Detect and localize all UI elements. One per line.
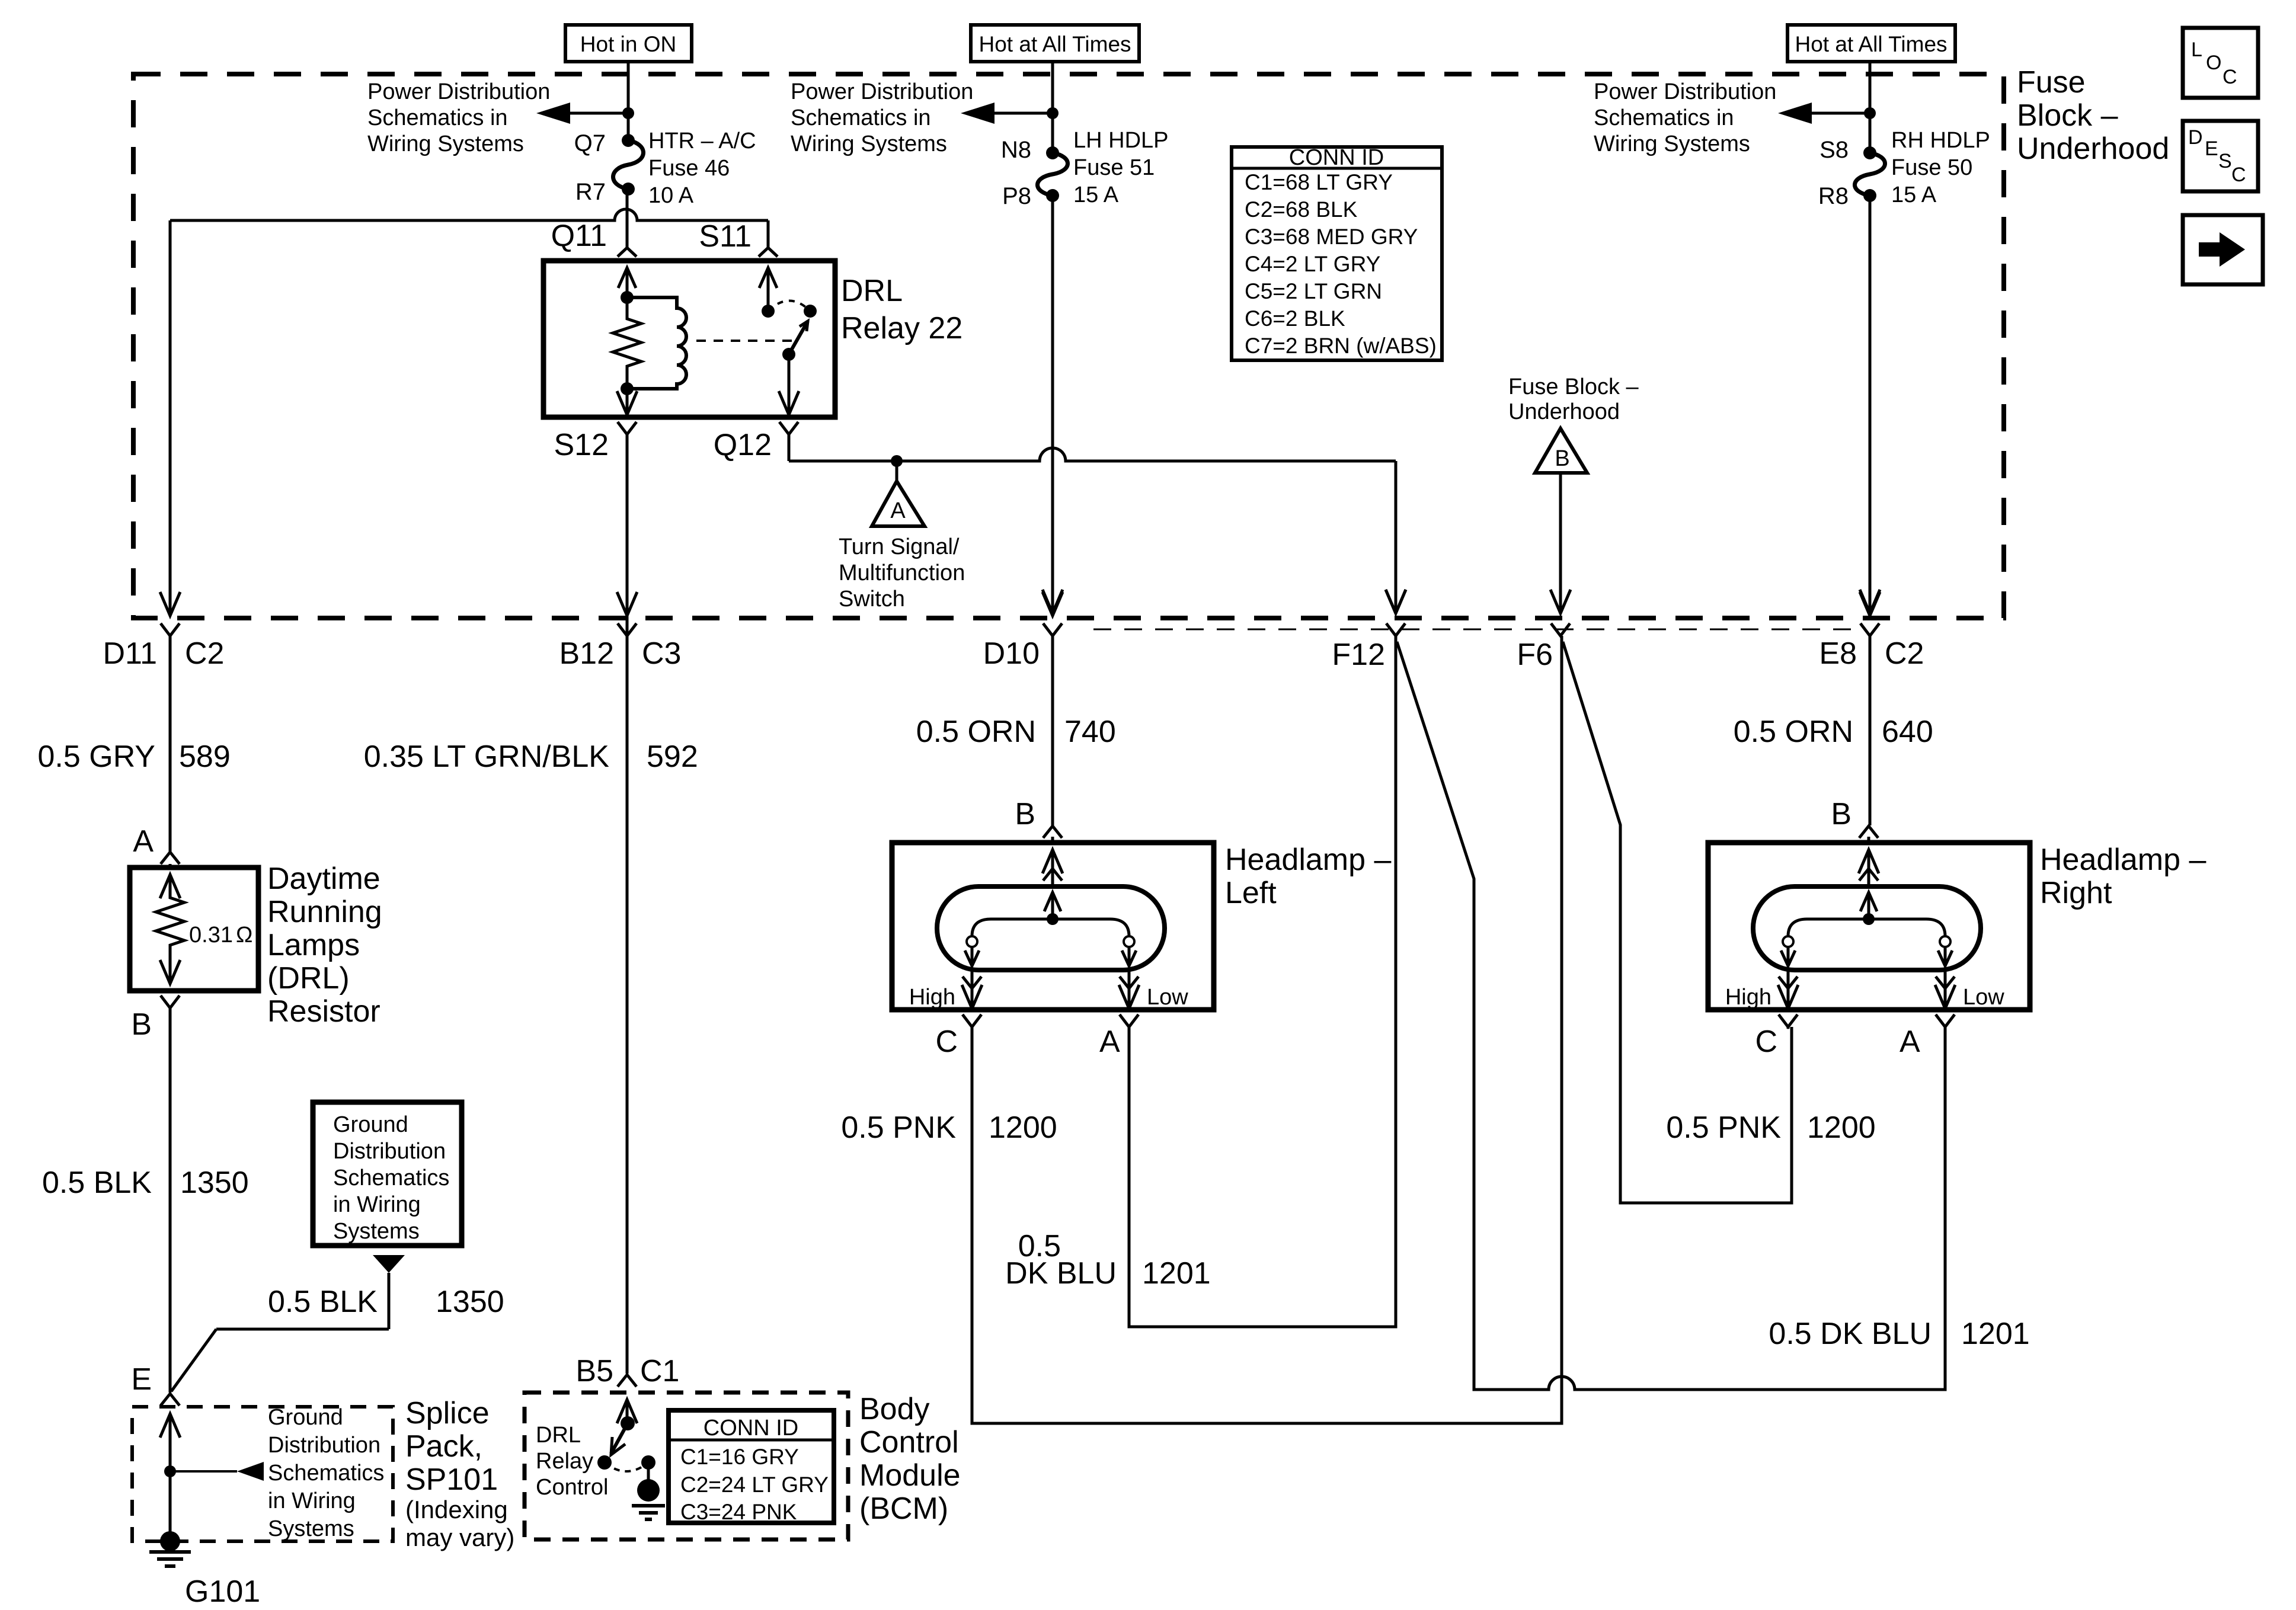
svg-text:0.35 LT GRN/BLK: 0.35 LT GRN/BLK (364, 740, 610, 774)
svg-text:C5=2 LT GRN: C5=2 LT GRN (1245, 279, 1382, 303)
svg-text:Schematics in: Schematics in (791, 105, 931, 130)
svg-text:LH HDLP: LH HDLP (1073, 128, 1169, 153)
svg-text:DRL: DRL (841, 274, 903, 308)
svg-text:Ground: Ground (333, 1112, 408, 1137)
svg-text:C3: C3 (642, 636, 681, 671)
svg-text:C1: C1 (640, 1354, 679, 1388)
svg-text:Q11: Q11 (551, 219, 607, 253)
svg-text:1200: 1200 (1807, 1110, 1876, 1145)
svg-text:Ground: Ground (268, 1405, 343, 1430)
svg-text:may vary): may vary) (405, 1523, 514, 1551)
svg-text:0.5 BLK: 0.5 BLK (42, 1166, 152, 1200)
svg-text:F12: F12 (1332, 638, 1385, 672)
svg-text:Schematics in: Schematics in (367, 105, 508, 130)
svg-text:Power Distribution: Power Distribution (1594, 79, 1776, 104)
svg-text:Module: Module (859, 1458, 961, 1493)
svg-text:(Indexing: (Indexing (405, 1496, 508, 1523)
svg-text:Headlamp –: Headlamp – (2040, 843, 2206, 877)
svg-text:C: C (2223, 66, 2237, 88)
svg-text:E: E (2205, 137, 2218, 160)
svg-text:C2: C2 (185, 636, 224, 671)
svg-text:0.5 BLK: 0.5 BLK (268, 1285, 378, 1319)
svg-text:Daytime: Daytime (267, 862, 380, 896)
svg-text:Low: Low (1963, 985, 2004, 1010)
svg-text:R7: R7 (575, 179, 606, 205)
svg-text:High: High (1725, 985, 1771, 1010)
svg-text:Systems: Systems (268, 1516, 354, 1541)
svg-text:Lamps: Lamps (267, 928, 360, 962)
svg-text:Distribution: Distribution (333, 1139, 446, 1164)
svg-text:Body: Body (859, 1392, 930, 1426)
svg-text:DRL: DRL (536, 1423, 581, 1448)
svg-text:0.5 ORN: 0.5 ORN (916, 715, 1036, 749)
svg-text:Fuse Block –: Fuse Block – (1508, 375, 1639, 399)
svg-text:Fuse 51: Fuse 51 (1073, 155, 1155, 180)
svg-text:S: S (2218, 150, 2232, 172)
svg-text:C3=68 MED GRY: C3=68 MED GRY (1245, 225, 1418, 249)
svg-text:S11: S11 (699, 219, 752, 254)
svg-text:C: C (935, 1025, 958, 1059)
svg-text:Multifunction: Multifunction (839, 561, 965, 585)
svg-text:10 A: 10 A (648, 183, 694, 208)
svg-text:CONN ID: CONN ID (703, 1416, 798, 1441)
svg-text:Fuse: Fuse (2017, 65, 2086, 100)
svg-text:C1=68 LT GRY: C1=68 LT GRY (1245, 170, 1393, 194)
svg-text:Distribution: Distribution (268, 1433, 380, 1458)
svg-text:A: A (133, 824, 154, 859)
svg-text:C1=16 GRY: C1=16 GRY (680, 1445, 799, 1469)
svg-text:Wiring Systems: Wiring Systems (367, 132, 524, 156)
svg-text:S12: S12 (554, 428, 609, 462)
svg-text:Power Distribution: Power Distribution (367, 79, 550, 104)
svg-text:in Wiring: in Wiring (333, 1192, 421, 1217)
svg-text:Power Distribution: Power Distribution (791, 79, 973, 104)
svg-text:Resistor: Resistor (267, 994, 380, 1029)
svg-text:Splice: Splice (405, 1396, 490, 1430)
svg-text:Running: Running (267, 895, 382, 929)
svg-text:0.31: 0.31 (189, 923, 233, 948)
svg-text:in Wiring: in Wiring (268, 1489, 356, 1513)
svg-text:C: C (1755, 1025, 1777, 1059)
svg-text:Relay 22: Relay 22 (841, 311, 962, 345)
svg-text:C2=24 LT GRY: C2=24 LT GRY (680, 1473, 829, 1497)
svg-text:G101: G101 (185, 1574, 260, 1609)
svg-text:C4=2 LT GRY: C4=2 LT GRY (1245, 252, 1380, 276)
svg-text:1350: 1350 (436, 1285, 504, 1319)
svg-text:D11: D11 (103, 636, 157, 671)
svg-text:B12: B12 (559, 636, 614, 671)
svg-text:Left: Left (1225, 876, 1277, 910)
svg-text:HTR – A/C: HTR – A/C (648, 129, 756, 153)
svg-text:592: 592 (647, 740, 698, 774)
svg-text:L: L (2191, 39, 2202, 61)
svg-text:A: A (1900, 1025, 1920, 1059)
svg-text:Block –: Block – (2017, 98, 2118, 133)
svg-text:Q12: Q12 (714, 428, 772, 462)
svg-text:RH HDLP: RH HDLP (1891, 128, 1990, 153)
svg-text:SP101: SP101 (405, 1462, 498, 1497)
svg-text:Pack,: Pack, (405, 1429, 482, 1464)
svg-text:E: E (131, 1362, 152, 1397)
svg-text:E8: E8 (1819, 636, 1857, 671)
svg-text:A: A (890, 498, 906, 523)
svg-text:Wiring Systems: Wiring Systems (1594, 132, 1750, 156)
svg-text:Schematics: Schematics (333, 1166, 449, 1190)
svg-text:Schematics in: Schematics in (1594, 105, 1734, 130)
svg-text:N8: N8 (1001, 137, 1031, 163)
svg-text:C3=24 PNK: C3=24 PNK (680, 1500, 797, 1524)
svg-text:Underhood: Underhood (1508, 399, 1620, 424)
svg-text:D10: D10 (983, 636, 1040, 671)
svg-text:Switch: Switch (839, 587, 905, 612)
svg-text:B5: B5 (575, 1354, 613, 1388)
svg-text:0.5 PNK: 0.5 PNK (1666, 1110, 1781, 1145)
svg-text:A: A (1099, 1025, 1120, 1059)
svg-text:P8: P8 (1002, 183, 1031, 209)
svg-text:589: 589 (179, 740, 231, 774)
svg-text:Ω: Ω (236, 923, 252, 948)
svg-text:1350: 1350 (180, 1166, 249, 1200)
svg-text:Underhood: Underhood (2017, 132, 2169, 166)
svg-text:(BCM): (BCM) (859, 1491, 948, 1526)
svg-text:0.5 PNK: 0.5 PNK (841, 1110, 956, 1145)
svg-text:640: 640 (1882, 715, 1933, 749)
svg-text:Schematics: Schematics (268, 1461, 384, 1486)
svg-text:C2: C2 (1885, 636, 1924, 671)
svg-text:High: High (909, 985, 955, 1010)
svg-text:Fuse 50: Fuse 50 (1891, 155, 1972, 180)
svg-text:Low: Low (1147, 985, 1188, 1010)
svg-text:S8: S8 (1819, 137, 1849, 163)
svg-text:B: B (1015, 797, 1035, 831)
svg-text:C7=2 BRN (w/ABS): C7=2 BRN (w/ABS) (1245, 334, 1437, 358)
svg-text:F6: F6 (1517, 638, 1553, 672)
svg-text:0.5 ORN: 0.5 ORN (1734, 715, 1853, 749)
svg-text:D: D (2188, 126, 2203, 149)
svg-text:0.5 DK BLU: 0.5 DK BLU (1769, 1317, 1932, 1351)
svg-text:DK BLU: DK BLU (1005, 1256, 1117, 1291)
svg-text:15 A: 15 A (1073, 183, 1119, 207)
svg-text:0.5 GRY: 0.5 GRY (38, 740, 155, 774)
svg-text:Control: Control (536, 1475, 609, 1500)
svg-text:B: B (131, 1007, 152, 1042)
svg-text:(DRL): (DRL) (267, 961, 350, 996)
svg-text:Control: Control (859, 1425, 959, 1459)
svg-text:740: 740 (1064, 715, 1116, 749)
svg-text:Wiring Systems: Wiring Systems (791, 132, 947, 156)
svg-text:15 A: 15 A (1891, 183, 1937, 207)
svg-text:Q7: Q7 (574, 130, 606, 156)
svg-text:Hot in ON: Hot in ON (580, 32, 676, 56)
svg-text:O: O (2206, 52, 2221, 74)
svg-text:R8: R8 (1818, 183, 1849, 209)
svg-text:C6=2 BLK: C6=2 BLK (1245, 306, 1345, 331)
svg-text:CONN ID: CONN ID (1289, 145, 1384, 170)
svg-text:1201: 1201 (1142, 1256, 1211, 1291)
svg-text:Hot at All Times: Hot at All Times (978, 32, 1131, 56)
svg-text:B: B (1555, 446, 1569, 471)
svg-text:Relay: Relay (536, 1449, 593, 1474)
svg-text:C: C (2231, 164, 2246, 186)
svg-text:Systems: Systems (333, 1219, 420, 1244)
svg-text:B: B (1831, 797, 1851, 831)
svg-text:Headlamp –: Headlamp – (1225, 843, 1391, 877)
svg-text:Right: Right (2040, 876, 2112, 910)
svg-text:1201: 1201 (1961, 1317, 2030, 1351)
svg-text:Hot at All Times: Hot at All Times (1795, 32, 1947, 56)
svg-text:C2=68 BLK: C2=68 BLK (1245, 197, 1358, 222)
svg-text:Fuse 46: Fuse 46 (648, 156, 730, 181)
svg-text:Turn Signal/: Turn Signal/ (839, 534, 960, 559)
svg-text:1200: 1200 (989, 1110, 1057, 1145)
